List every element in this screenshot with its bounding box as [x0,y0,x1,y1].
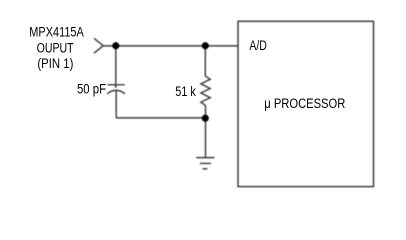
svg-text:A/D: A/D [249,38,267,53]
svg-text:μ PROCESSOR: μ PROCESSOR [264,96,345,111]
svg-text:(PIN 1): (PIN 1) [37,56,73,71]
svg-text:50 pF: 50 pF [77,82,106,97]
svg-text:MPX4115A: MPX4115A [29,24,84,39]
svg-text:OUPUT: OUPUT [37,40,74,55]
svg-text:51 k: 51 k [175,84,196,99]
